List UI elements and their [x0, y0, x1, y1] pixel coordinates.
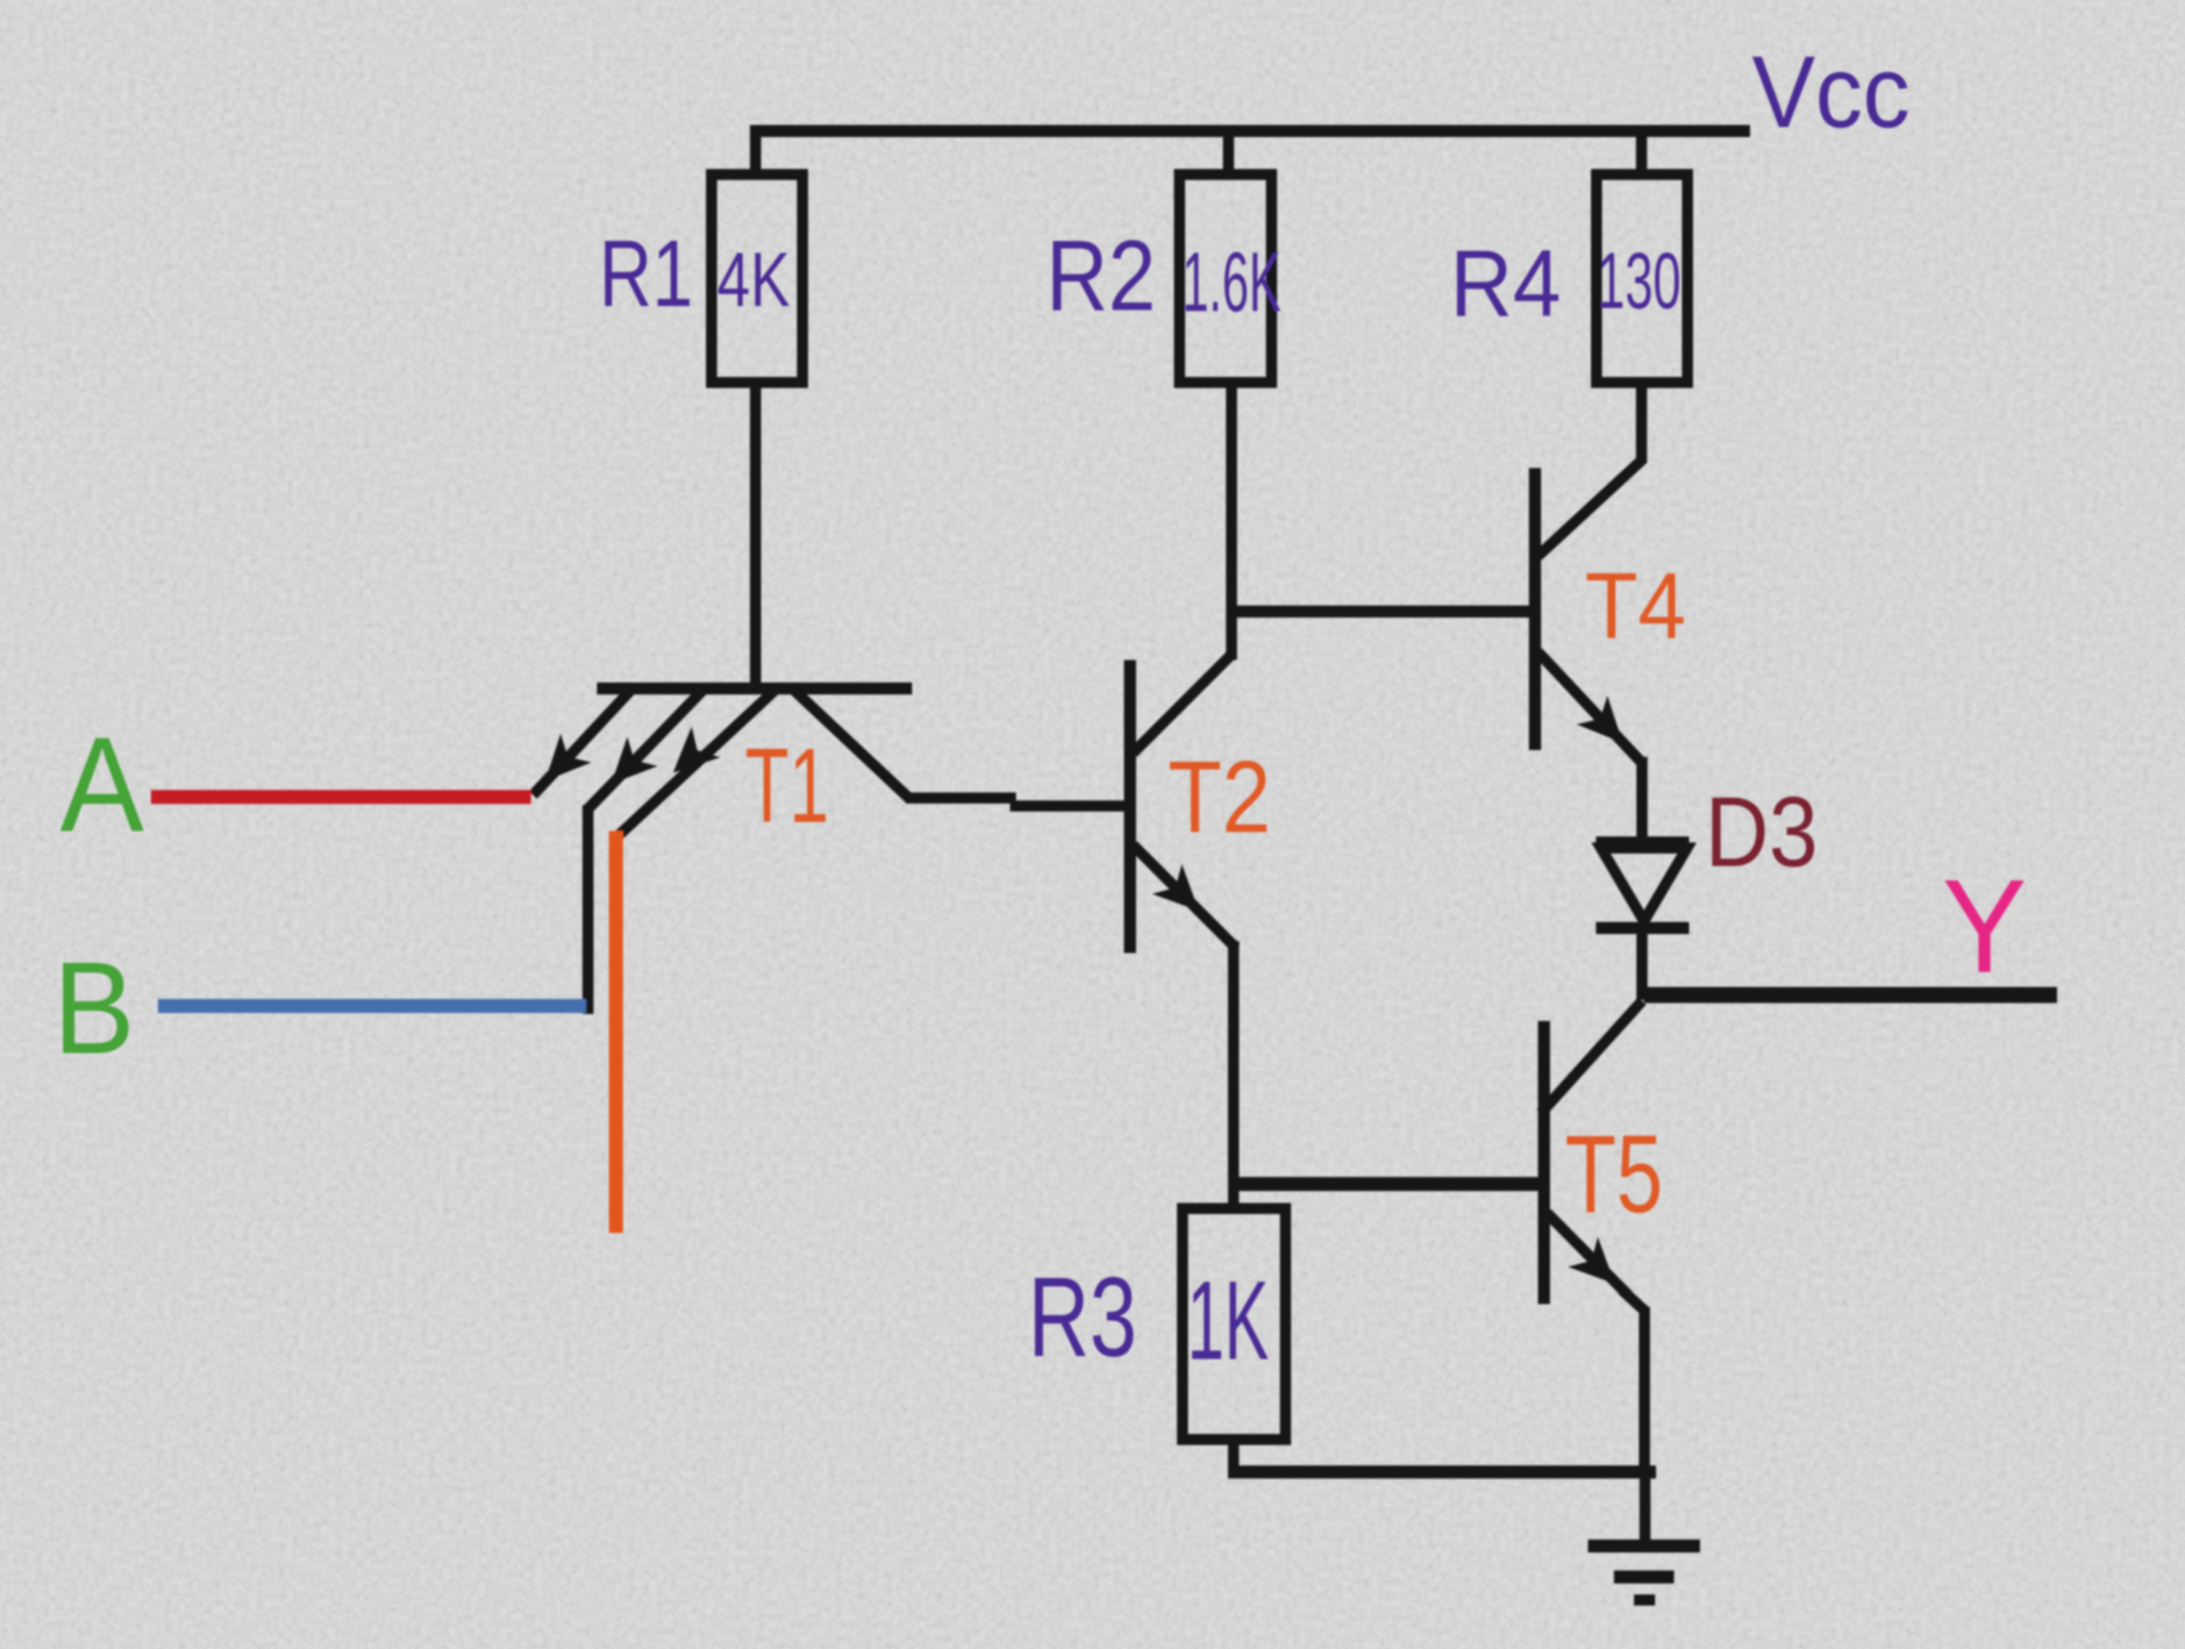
- svg-text:B: B: [53, 934, 135, 1081]
- svg-text:T1: T1: [745, 727, 829, 845]
- svg-text:Vcc: Vcc: [1752, 35, 1910, 149]
- svg-text:130: 130: [1597, 236, 1681, 325]
- svg-text:1K: 1K: [1187, 1258, 1269, 1383]
- svg-text:R2: R2: [1046, 220, 1156, 332]
- svg-text:T5: T5: [1565, 1113, 1663, 1236]
- svg-text:1.6K: 1.6K: [1182, 235, 1281, 329]
- svg-text:R4: R4: [1450, 231, 1561, 337]
- svg-text:D3: D3: [1705, 776, 1818, 887]
- svg-text:A: A: [60, 709, 144, 860]
- svg-text:T4: T4: [1585, 553, 1686, 658]
- svg-text:4K: 4K: [717, 237, 790, 323]
- svg-text:T2: T2: [1168, 740, 1271, 854]
- svg-text:R1: R1: [599, 221, 693, 327]
- svg-text:Y: Y: [1942, 853, 2027, 1001]
- svg-text:R3: R3: [1028, 1254, 1137, 1380]
